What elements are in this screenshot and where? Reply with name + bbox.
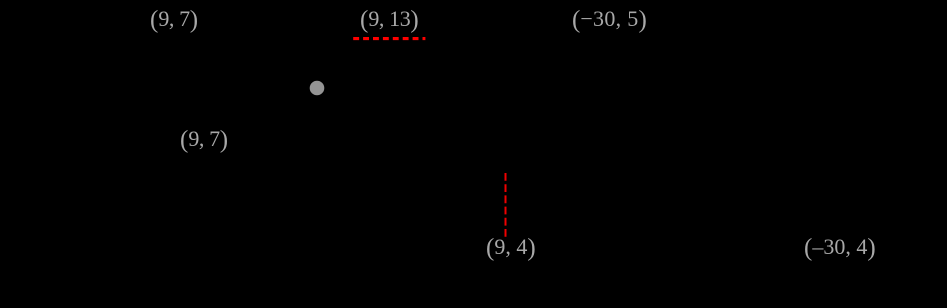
wire: red horizontal dashed underline below (9,13) — [353, 37, 425, 40]
node: gray dot — [310, 81, 325, 96]
node E label (9,4) — [486, 232, 536, 262]
node A label (9,7) top-left — [150, 4, 198, 34]
node B label (9,13) — [360, 4, 419, 34]
node F label (-30,4) — [804, 232, 876, 262]
node D label (9,7) lower — [180, 124, 228, 154]
wire: red vertical dashed line above (9,4) — [505, 173, 507, 238]
node C label (-30,5) — [572, 4, 647, 34]
